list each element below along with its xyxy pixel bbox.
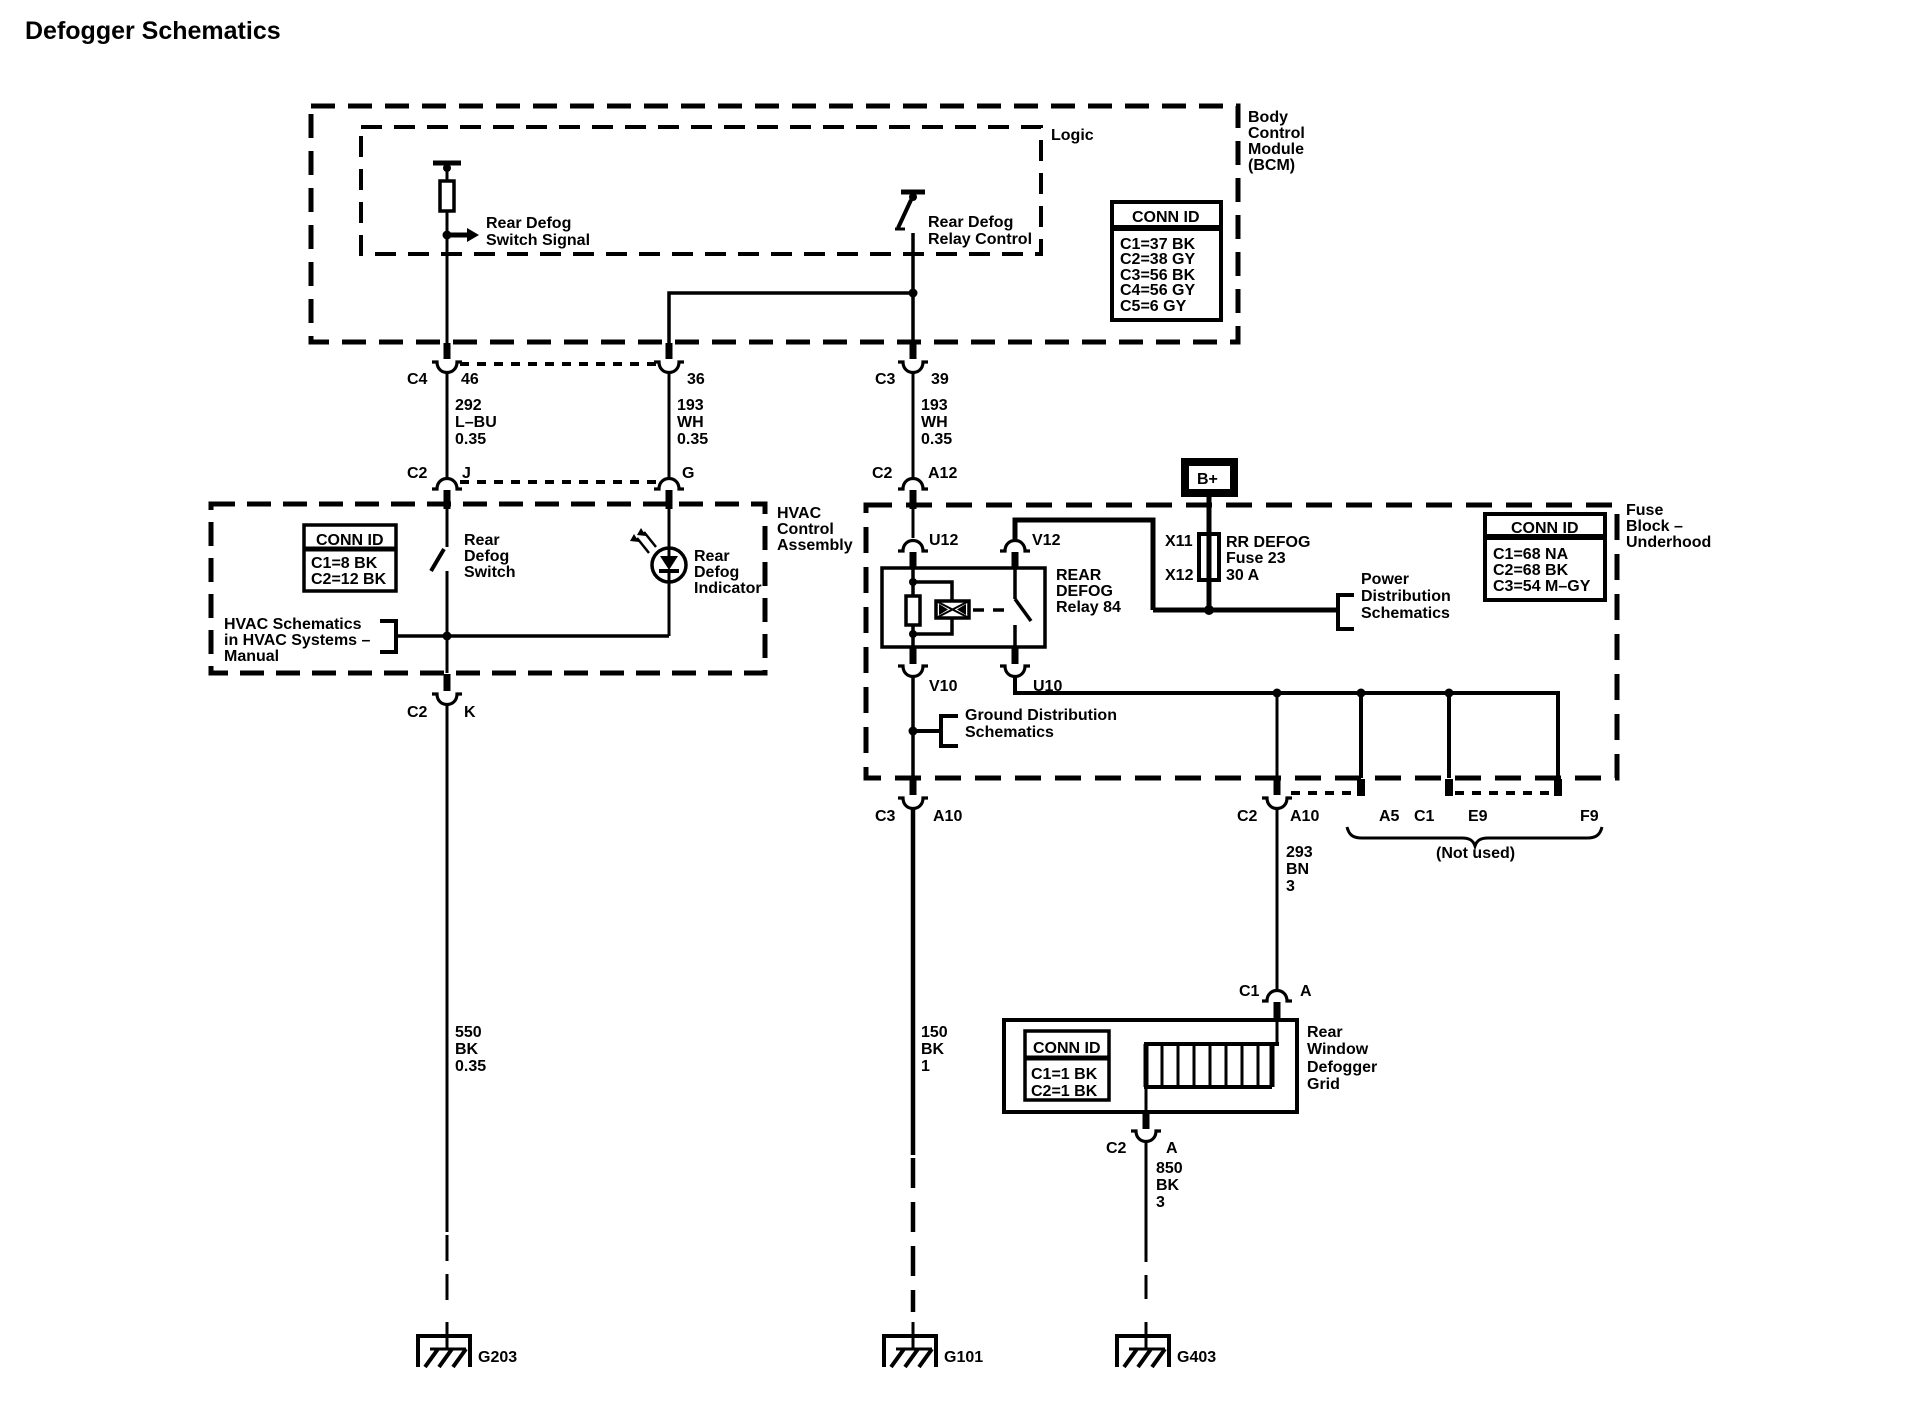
connector C4 pin 46 [432,362,462,373]
HVAC Control Assembly box [211,504,765,673]
svg-text:Rear: Rear [464,532,500,549]
svg-text:292: 292 [455,397,482,414]
wire B+ feed [1207,496,1212,610]
svg-text:CONN ID: CONN ID [1132,209,1200,226]
svg-text:Defog: Defog [694,564,739,581]
svg-text:Schematics: Schematics [1361,605,1450,622]
svg-text:REAR: REAR [1056,567,1102,584]
connector C2 pin J [432,479,462,490]
svg-text:HVAC Schematics: HVAC Schematics [224,616,362,633]
wire 150 BK 1 to G101 [911,808,916,1155]
svg-text:BN: BN [1286,861,1309,878]
junction [909,289,918,298]
svg-text:Relay 84: Relay 84 [1056,599,1121,616]
svg-text:WH: WH [921,414,948,431]
svg-text:C3: C3 [875,371,896,388]
svg-text:850: 850 [1156,1160,1183,1177]
svg-text:Grid: Grid [1307,1076,1340,1093]
wire A12 to U12 [912,509,915,538]
connector pin 36 [654,362,684,373]
relay actuator dashed link [973,608,1007,612]
connector C2 pin A (grid out) [1143,1113,1150,1129]
wire fuse output to power distribution [1153,608,1338,613]
svg-text:Rear: Rear [694,548,730,565]
svg-text:G203: G203 [478,1349,517,1366]
connector V10 [910,648,1019,664]
svg-text:Defogger: Defogger [1307,1059,1377,1076]
svg-text:B+: B+ [1197,471,1218,488]
svg-text:193: 193 [677,397,704,414]
svg-text:E9: E9 [1468,808,1488,825]
svg-text:293: 293 [1286,844,1313,861]
svg-text:C3: C3 [875,808,896,825]
svg-text:A: A [1300,983,1312,1000]
connector U10 [1000,666,1030,677]
svg-text:C2=1 BK: C2=1 BK [1031,1083,1098,1100]
CONN ID table (fuse block) [1485,514,1605,600]
wire 292 L-BU 0.35 [446,373,449,478]
svg-text:(Not used): (Not used) [1436,845,1515,862]
wire 193 WH 0.35 (left) [668,373,671,478]
not used brace [1347,827,1602,846]
svg-text:C1=1 BK: C1=1 BK [1031,1066,1098,1083]
svg-text:0.35: 0.35 [677,431,708,448]
svg-text:0.35: 0.35 [455,431,486,448]
svg-text:150: 150 [921,1024,948,1041]
svg-text:CONN ID: CONN ID [316,532,384,549]
svg-text:BK: BK [1156,1177,1180,1194]
rear defog indicator LED [630,509,686,636]
svg-text:C2=38 GY: C2=38 GY [1120,251,1195,268]
svg-text:DEFOG: DEFOG [1056,583,1113,600]
svg-text:C2: C2 [872,465,893,482]
node: rear defog switch signal arrow [443,215,591,249]
row2 pins [444,490,917,509]
relay switch [1015,568,1031,647]
svg-text:A5: A5 [1379,808,1400,825]
svg-text:0.35: 0.35 [455,1058,486,1075]
svg-text:CONN ID: CONN ID [1033,1040,1101,1057]
svg-text:3: 3 [1286,878,1295,895]
svg-text:A10: A10 [1290,808,1319,825]
svg-text:WH: WH [677,414,704,431]
wire V10 down to A10 [911,677,915,778]
svg-text:J: J [462,465,471,482]
svg-text:G: G [682,465,694,482]
svg-text:BK: BK [455,1041,479,1058]
svg-text:C1=68 NA: C1=68 NA [1493,546,1569,563]
svg-text:Schematics: Schematics [965,724,1054,741]
svg-text:C1=8 BK: C1=8 BK [311,555,378,572]
connector C1 pin A [1262,991,1292,1002]
svg-text:Defog: Defog [464,548,509,565]
ground G403 [1115,1322,1171,1367]
svg-text:Switch Signal: Switch Signal [486,232,590,249]
connector C2 pin A12 [898,479,928,490]
defogger grid element [1144,1020,1279,1112]
svg-text:Logic: Logic [1051,127,1094,144]
svg-text:Rear Defog: Rear Defog [928,214,1013,231]
svg-text:Fuse 23: Fuse 23 [1226,550,1286,567]
svg-text:Window: Window [1307,1041,1369,1058]
svg-text:L–BU: L–BU [455,414,497,431]
B+ supply [1185,462,1234,493]
svg-text:C4: C4 [407,371,428,388]
rear defog relay control label [928,214,1032,248]
power distribution bracket [1338,595,1354,629]
svg-text:193: 193 [921,397,948,414]
drop to A5 [1359,693,1363,778]
svg-text:A: A [1166,1140,1178,1157]
not used pins A5 E9 F9 [1357,779,1562,796]
svg-text:C2: C2 [1237,808,1258,825]
resistor (rear defog switch pull-up) [433,163,461,344]
rear defog switch (in HVAC) [431,509,447,673]
svg-text:C3=54 M–GY: C3=54 M–GY [1493,578,1591,595]
relay coil box [936,601,969,618]
wire 550 BK 0.35 to G203 [446,704,449,1232]
svg-text:0.35: 0.35 [921,431,952,448]
svg-text:K: K [464,704,476,721]
svg-text:550: 550 [455,1024,482,1041]
Rear Window Defogger Grid box [1004,1020,1297,1112]
svg-text:3: 3 [1156,1194,1165,1211]
svg-text:C2: C2 [1106,1140,1127,1157]
Logic box [361,127,1041,254]
svg-text:BK: BK [921,1041,945,1058]
HVAC schematics reference bracket [380,621,669,652]
ground G101 [882,1322,938,1367]
svg-text:Rear: Rear [1307,1024,1343,1041]
svg-text:A12: A12 [928,465,957,482]
rear defog relay control driver (switch symbol in logic box) [895,192,925,344]
connector pin G [654,479,684,490]
labels row1 [407,371,949,388]
svg-text:46: 46 [461,371,479,388]
svg-text:Indicator: Indicator [694,580,762,597]
svg-text:HVAC: HVAC [777,505,822,522]
svg-text:A10: A10 [933,808,962,825]
CONN ID table U1 (BCM) [1112,202,1221,320]
svg-text:C5=6 GY: C5=6 GY [1120,298,1187,315]
connector U12 [898,541,928,552]
drop to A10 [1276,693,1279,778]
svg-text:V12: V12 [1032,532,1061,549]
CONN ID table (HVAC) [304,525,396,591]
svg-text:CONN ID: CONN ID [1511,520,1579,537]
wire 850 BK 3 [1145,1141,1148,1238]
svg-text:Control: Control [777,521,834,538]
svg-text:F9: F9 [1580,808,1599,825]
BCM box (Body Control Module) [311,106,1238,342]
connector C3 pin A10 [910,779,917,795]
svg-text:Power: Power [1361,571,1409,588]
svg-text:Relay Control: Relay Control [928,231,1032,248]
ground distribution bracket [913,716,958,746]
svg-text:(BCM): (BCM) [1248,157,1295,174]
svg-text:C1: C1 [1414,808,1435,825]
svg-text:V10: V10 [929,678,958,695]
svg-text:30 A: 30 A [1226,567,1260,584]
svg-text:C2=68 BK: C2=68 BK [1493,562,1569,579]
wire 293 BN 3 [1276,808,1279,991]
svg-text:Rear Defog: Rear Defog [486,215,571,232]
fuse 23 RR DEFOG 30A [1199,534,1219,580]
Fuse Block - Underhood box [866,505,1617,778]
svg-text:39: 39 [931,371,949,388]
svg-text:Body: Body [1248,109,1288,126]
svg-text:1: 1 [921,1058,930,1075]
svg-text:C1: C1 [1239,983,1260,1000]
connector C2 pin K [444,674,451,691]
labels row2 [407,465,957,482]
svg-text:36: 36 [687,371,705,388]
svg-text:C4=56 GY: C4=56 GY [1120,282,1195,299]
svg-text:X12: X12 [1165,567,1194,584]
connector C2 pin A10 [1274,779,1281,795]
svg-text:RR DEFOG: RR DEFOG [1226,534,1310,551]
svg-text:Block –: Block – [1626,518,1683,535]
relay coil circuit [906,568,952,647]
svg-text:Defogger Schematics: Defogger Schematics [25,17,281,45]
svg-text:C2: C2 [407,704,428,721]
svg-text:Ground Distribution: Ground Distribution [965,707,1117,724]
connector V12 [1000,541,1030,552]
connector row BCM outputs: pins [444,343,917,359]
svg-text:in HVAC Systems –: in HVAC Systems – [224,632,371,649]
ground G203 [416,1322,472,1367]
wire: relay control branch to pin 36 [669,293,913,345]
svg-text:Module: Module [1248,141,1304,158]
inline connector dotted lines [460,364,656,482]
svg-text:Switch: Switch [464,564,516,581]
svg-text:Assembly: Assembly [777,537,853,554]
svg-text:C2=12 BK: C2=12 BK [311,571,387,588]
drop to E9 [1447,693,1451,778]
svg-text:C2: C2 [407,465,428,482]
CONN ID table (grid) [1025,1031,1109,1100]
wire 193 WH 0.35 (right) [912,373,915,478]
svg-text:Underhood: Underhood [1626,534,1711,551]
HVAC label [777,505,853,554]
BCM label [1248,109,1305,174]
REAR DEFOG Relay 84 [882,568,1045,647]
svg-text:X11: X11 [1165,533,1193,550]
svg-text:G403: G403 [1177,1349,1216,1366]
connector C3 pin 39 [898,362,928,373]
svg-text:Manual: Manual [224,648,279,665]
svg-text:G101: G101 [944,1349,983,1366]
svg-text:Distribution: Distribution [1361,588,1451,605]
svg-text:U12: U12 [929,532,958,549]
svg-text:Fuse: Fuse [1626,502,1663,519]
wire V12 feed from fuse [1015,520,1153,610]
svg-text:Control: Control [1248,125,1305,142]
wire U10 to grid feed rail [1015,677,1558,778]
